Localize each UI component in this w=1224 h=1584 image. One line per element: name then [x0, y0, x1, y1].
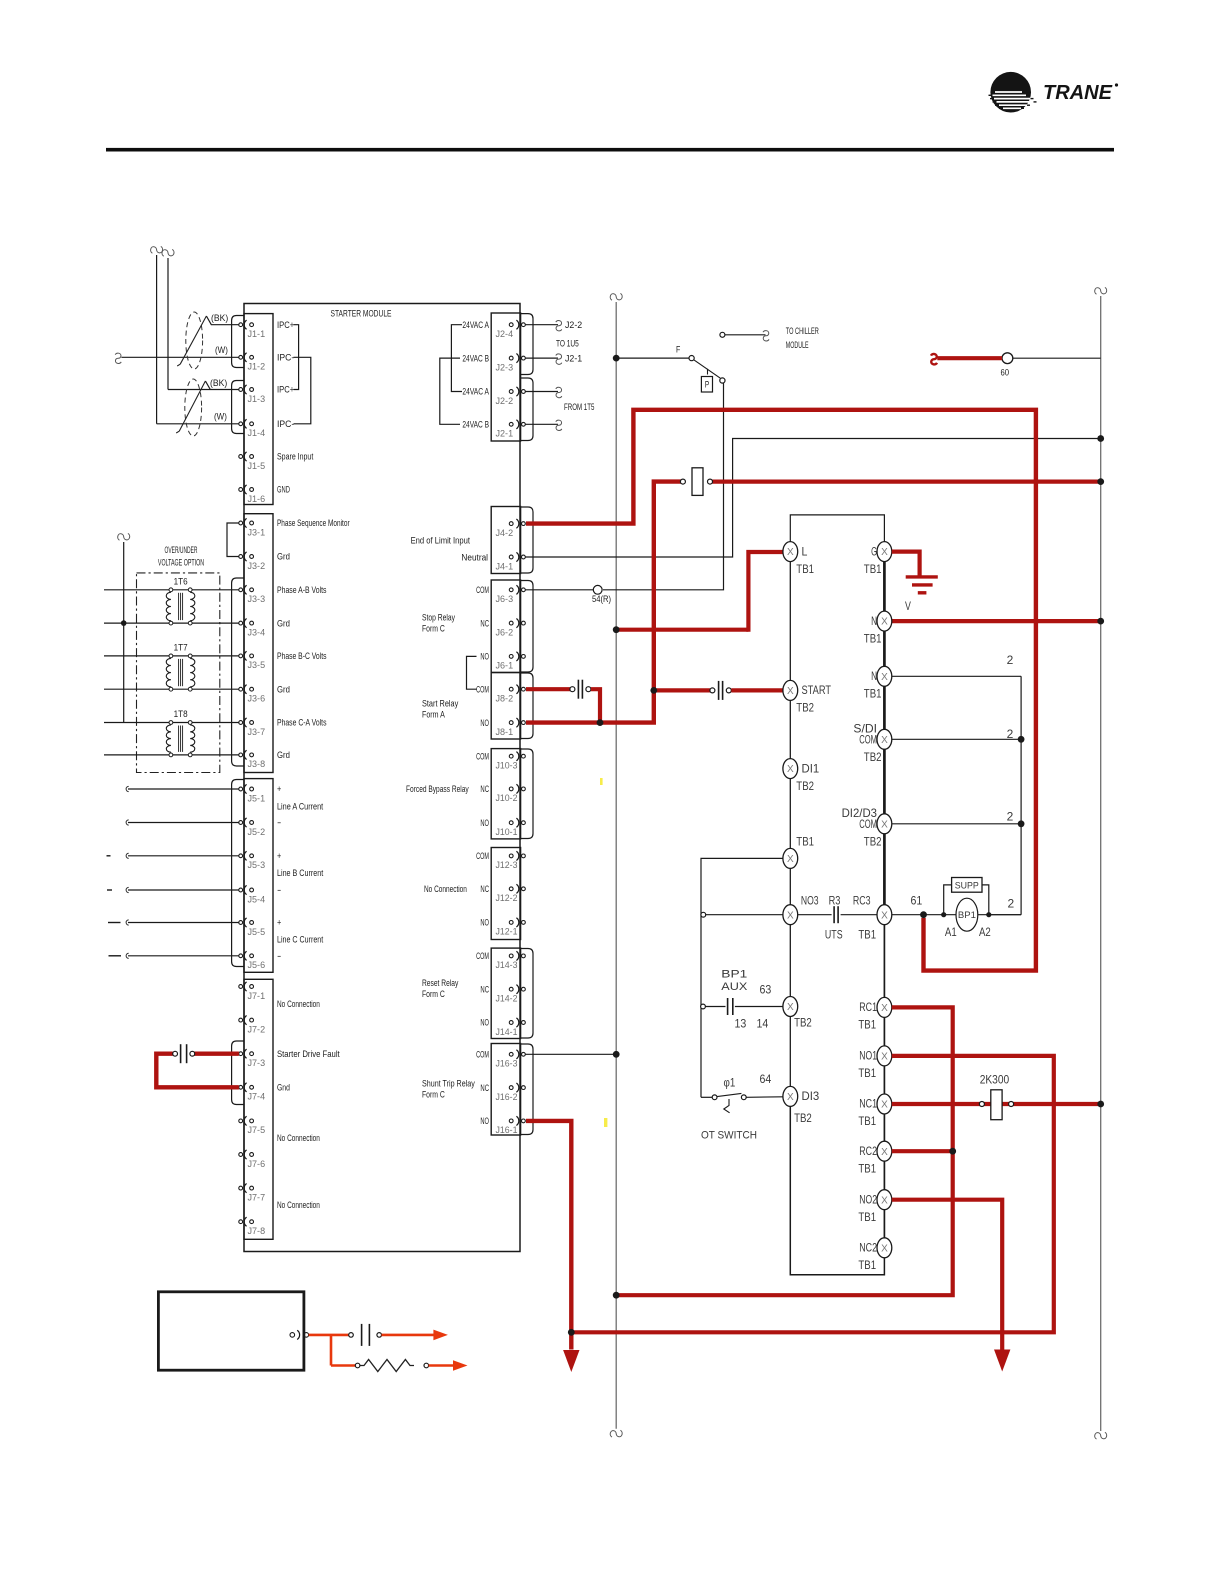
- svg-text:Phase Sequence Monitor: Phase Sequence Monitor: [277, 518, 350, 528]
- svg-text:Line A Current: Line A Current: [277, 802, 324, 812]
- svg-text:Starter Drive Fault: Starter Drive Fault: [277, 1049, 340, 1059]
- svg-text:2: 2: [1007, 727, 1014, 741]
- red wire J16-1 shunt trip down arrow: [526, 1121, 571, 1350]
- svg-text:J1-6: J1-6: [248, 494, 266, 504]
- svg-text:No Connection: No Connection: [277, 1133, 320, 1143]
- svg-text:J12-2: J12-2: [496, 893, 518, 903]
- svg-text:J1-5: J1-5: [248, 461, 266, 471]
- svg-text:J7-1: J7-1: [248, 991, 266, 1001]
- svg-text:J5-4: J5-4: [248, 894, 266, 904]
- svg-text:1T6: 1T6: [174, 576, 188, 586]
- connector pin J6-2: [509, 621, 513, 625]
- svg-text:TB1: TB1: [858, 1258, 876, 1272]
- connector J16 body: [491, 1044, 520, 1136]
- svg-text:RC1: RC1: [859, 1000, 877, 1014]
- svg-text:J7-3: J7-3: [248, 1058, 266, 1068]
- feed vertical wire: [123, 542, 125, 723]
- svg-text:(BK): (BK): [211, 313, 228, 323]
- svg-text:63: 63: [760, 982, 772, 996]
- right vertical rail: [1100, 296, 1102, 1431]
- connector pin J16-2: [509, 1086, 513, 1090]
- connector pin J10-1: [509, 821, 513, 825]
- svg-text:14: 14: [757, 1016, 769, 1030]
- twisted pair symbol 2: [185, 379, 202, 436]
- svg-text:IPC+: IPC+: [277, 320, 294, 330]
- svg-text:1T8: 1T8: [174, 709, 188, 719]
- svg-text:X: X: [787, 910, 794, 921]
- svg-text:(W): (W): [215, 345, 228, 355]
- connector pin J5-6: [239, 954, 243, 958]
- red wire J8-2 COM via capacitor: [526, 687, 570, 691]
- wire phase B to 1T7: [104, 655, 239, 657]
- connector J4 body: [491, 507, 520, 574]
- svg-text:X: X: [881, 910, 888, 921]
- connector J3 body: [244, 514, 273, 773]
- terminal 54(R): [593, 585, 602, 594]
- svg-text:TO 1U5: TO 1U5: [556, 339, 579, 349]
- svg-text:No Connection: No Connection: [277, 999, 320, 1009]
- svg-text:J7-5: J7-5: [248, 1125, 266, 1135]
- svg-text:X: X: [881, 547, 888, 558]
- svg-text:J2-3: J2-3: [496, 362, 514, 372]
- connector pin J1-3: [239, 388, 243, 392]
- terminal RC3 TB1: [877, 905, 892, 925]
- red wire J4-2 to BP1 61: [526, 410, 1036, 971]
- connector pin J7-2: [239, 1018, 243, 1022]
- terminal NC2 TB1: [877, 1238, 892, 1258]
- svg-text:UTS: UTS: [825, 927, 843, 941]
- svg-text:IPC-: IPC-: [277, 419, 294, 429]
- svg-text:NO: NO: [480, 918, 489, 928]
- bracket J1-3/J1-4: [232, 381, 244, 434]
- svg-text:J3-4: J3-4: [248, 627, 266, 637]
- svg-text:Grd: Grd: [277, 684, 290, 694]
- svg-text:NO3: NO3: [801, 893, 819, 907]
- svg-text:TB1: TB1: [858, 1210, 876, 1224]
- svg-text:START: START: [802, 683, 832, 697]
- bracket J10: [521, 749, 533, 839]
- svg-text:J12-3: J12-3: [496, 860, 518, 870]
- starter module outline: [244, 304, 520, 1252]
- svg-text:J14-2: J14-2: [496, 994, 518, 1004]
- terminal N TB1 second: [892, 675, 1021, 677]
- svg-text:Gnd: Gnd: [277, 1083, 290, 1093]
- relay coil on red wire: [680, 479, 685, 484]
- P box: [701, 377, 712, 393]
- svg-text:J3-8: J3-8: [248, 759, 266, 769]
- wire F to stop relay COM: [603, 383, 724, 590]
- terminal DI3 TB2: [783, 1086, 798, 1106]
- svg-text:Grd: Grd: [277, 552, 290, 562]
- connector pin J14-2: [509, 987, 513, 991]
- svg-text:J10-3: J10-3: [496, 761, 518, 771]
- svg-text:X: X: [881, 1100, 888, 1111]
- connector pin J12-3: [509, 854, 513, 858]
- svg-text:TB2: TB2: [796, 701, 814, 715]
- svg-text:Grd: Grd: [277, 750, 290, 760]
- CT stub: [107, 889, 112, 891]
- connector pin J5-4: [239, 888, 243, 892]
- middle terminal column lower: [883, 915, 885, 1248]
- connector pin J1-5: [239, 455, 243, 459]
- svg-text:J1-1: J1-1: [248, 329, 266, 339]
- connector pin J4-2: [509, 522, 513, 526]
- svg-text:FROM 1T5: FROM 1T5: [564, 402, 594, 412]
- bracket J16: [521, 1044, 533, 1135]
- svg-text:NO1: NO1: [859, 1049, 877, 1063]
- svg-text:J16-1: J16-1: [496, 1125, 518, 1135]
- red wire NO2 down arrow: [892, 1200, 1002, 1350]
- connector pin J7-6: [239, 1153, 243, 1157]
- svg-text:J3-1: J3-1: [248, 527, 266, 537]
- svg-text:X: X: [881, 1052, 888, 1063]
- svg-text:54(R): 54(R): [592, 594, 611, 604]
- connector pin J10-3: [509, 754, 513, 758]
- svg-text:J10-1: J10-1: [496, 827, 518, 837]
- svg-text:TB1: TB1: [796, 562, 814, 576]
- svg-text:1T7: 1T7: [174, 642, 188, 652]
- svg-text:Form C: Form C: [422, 989, 445, 999]
- svg-text:J3-6: J3-6: [248, 694, 266, 704]
- svg-text:Shunt Trip Relay: Shunt Trip Relay: [422, 1079, 475, 1089]
- terminal N TB1 to right rail red: [892, 619, 1101, 623]
- svg-text:+: +: [277, 784, 281, 794]
- svg-text:X: X: [787, 1092, 794, 1103]
- yellow flecks: [604, 1118, 607, 1127]
- wire to J1-3: [168, 389, 239, 391]
- connector pin J5-3: [239, 854, 243, 858]
- CT lead wire: [128, 889, 239, 891]
- svg-text:NC: NC: [480, 618, 489, 628]
- connector pin J2-1: [509, 422, 513, 426]
- svg-text:J4-2: J4-2: [496, 528, 514, 538]
- svg-text:MODULE: MODULE: [786, 340, 809, 350]
- connector pin J12-2: [509, 887, 513, 891]
- svg-text:J6-3: J6-3: [496, 594, 514, 604]
- svg-text:F: F: [676, 345, 681, 355]
- connector pin J1-1: [239, 323, 243, 327]
- svg-text:AUX: AUX: [721, 981, 748, 993]
- svg-text:RC3: RC3: [853, 893, 871, 907]
- svg-text:GND: GND: [277, 485, 290, 495]
- svg-text:TB2: TB2: [864, 750, 882, 764]
- svg-text:X: X: [787, 764, 794, 775]
- svg-text:X: X: [787, 1002, 794, 1013]
- svg-text:J5-3: J5-3: [248, 860, 266, 870]
- transformer 1T6: [166, 592, 171, 620]
- red wire RC2: [892, 1149, 953, 1153]
- svg-text:TB2: TB2: [796, 779, 814, 793]
- over/under voltage option dashed box: [137, 573, 220, 773]
- red wire coil to right rail: [712, 480, 1100, 484]
- svg-text:Form C: Form C: [422, 1090, 445, 1100]
- svg-text:J3-2: J3-2: [248, 561, 266, 571]
- svg-text:61: 61: [911, 893, 923, 907]
- twisted pair symbol 1: [186, 312, 203, 369]
- svg-text:DI1: DI1: [802, 761, 820, 775]
- connector J14 body: [491, 948, 520, 1038]
- CT lead wire: [128, 955, 239, 957]
- capacitor on start branch: [710, 688, 715, 693]
- svg-text:Phase B-C Volts: Phase B-C Volts: [277, 651, 327, 661]
- svg-text:NC: NC: [480, 1083, 489, 1093]
- svg-text:STARTER MODULE: STARTER MODULE: [331, 309, 392, 320]
- svg-text:X: X: [881, 1195, 888, 1206]
- svg-text:No Connection: No Connection: [277, 1200, 320, 1210]
- connector pin J3-7: [239, 721, 243, 725]
- red wire NO1 to J16-1 link: [571, 1056, 1054, 1332]
- svg-text:TB1: TB1: [858, 1161, 876, 1175]
- svg-text:TB1: TB1: [858, 1114, 876, 1128]
- stub J2-2 from 1T5: [526, 391, 559, 393]
- left terminal column: [789, 552, 791, 1097]
- ground symbol: [906, 575, 938, 578]
- terminal RC2 TB1: [877, 1141, 892, 1161]
- connector pin J1-6: [239, 488, 243, 492]
- connector J7 body: [244, 979, 273, 1239]
- svg-text:NO: NO: [480, 1116, 489, 1126]
- svg-text:A1: A1: [945, 925, 957, 939]
- svg-text:J5-2: J5-2: [248, 827, 266, 837]
- svg-text:60: 60: [1001, 368, 1010, 378]
- svg-text:Neutral: Neutral: [461, 552, 488, 562]
- IPC+ link J1-1 to J1-3: [294, 325, 299, 390]
- bracket J3-3..J3-8: [232, 578, 244, 766]
- connector pin J14-3: [509, 954, 513, 958]
- svg-text:COM: COM: [476, 684, 489, 694]
- external device box: [158, 1292, 304, 1370]
- svg-text:J6-2: J6-2: [496, 627, 514, 637]
- transformer 1T8: [166, 725, 171, 752]
- connector J1 body: [244, 314, 273, 505]
- svg-text:COM: COM: [476, 1050, 489, 1060]
- svg-text:TB1: TB1: [796, 834, 814, 848]
- wire L-G top bracket: [790, 515, 884, 552]
- bracket J6: [521, 581, 533, 673]
- wire RC3 to BP1: [892, 914, 1021, 916]
- svg-text:J7-4: J7-4: [248, 1092, 266, 1102]
- link wire to NO3: [701, 858, 783, 1097]
- terminal NO1 TB1: [877, 1046, 892, 1066]
- connector pin J16-3: [509, 1052, 513, 1056]
- bracket J2-4/J2-3: [521, 314, 533, 375]
- svg-text:J7-7: J7-7: [248, 1192, 266, 1202]
- connector pin J7-3: [239, 1052, 243, 1056]
- CT stub: [109, 955, 122, 957]
- svg-text:NO: NO: [480, 1018, 489, 1028]
- svg-text:J4-1: J4-1: [496, 561, 514, 571]
- connector pin J7-8: [239, 1220, 243, 1224]
- wire to J1-4: [157, 423, 239, 425]
- svg-text:J3-7: J3-7: [248, 727, 266, 737]
- connector pin J2-3: [509, 356, 513, 360]
- svg-text:End of Limit Input: End of Limit Input: [411, 536, 471, 546]
- svg-text:J2-2: J2-2: [565, 320, 582, 330]
- svg-text:-: -: [277, 818, 281, 828]
- left vertical rail: [615, 302, 617, 1429]
- svg-text:VOLTAGE OPTION: VOLTAGE OPTION: [158, 558, 204, 568]
- svg-text:Grd: Grd: [277, 618, 290, 628]
- svg-text:NC: NC: [480, 784, 489, 794]
- CT stub: [108, 922, 121, 924]
- connector pin J7-4: [239, 1085, 243, 1089]
- svg-text:TB1: TB1: [858, 1018, 876, 1032]
- connector pin J3-5: [239, 654, 243, 658]
- bus 2 vertical: [1020, 676, 1022, 914]
- terminal 60 wire: [1013, 357, 1101, 359]
- capacitor on starter drive fault: [173, 1051, 178, 1056]
- connector pin J6-3: [509, 588, 513, 592]
- connector pin J7-1: [239, 985, 243, 989]
- svg-text:J10-2: J10-2: [496, 793, 518, 803]
- CT lead wire: [128, 922, 239, 924]
- svg-text:TRANE: TRANE: [1043, 81, 1113, 104]
- svg-text:J1-4: J1-4: [248, 428, 266, 438]
- terminal S/DI COM TB2: [892, 738, 1021, 740]
- red wire RC1 down to rail: [616, 1007, 953, 1295]
- wire to chiller module: [720, 332, 725, 337]
- neutral wire J4-1 to right rail: [526, 439, 1101, 558]
- svg-text:RC2: RC2: [859, 1144, 877, 1158]
- relay coil 2K300: [979, 1102, 984, 1107]
- stub J2-4 to 1U5 J2-2: [526, 324, 559, 326]
- svg-text:J7-8: J7-8: [248, 1226, 266, 1236]
- terminal NC1 TB1: [877, 1094, 892, 1114]
- svg-text:X: X: [881, 735, 888, 746]
- SUPP suppressor: [944, 885, 989, 915]
- svg-text:J8-2: J8-2: [496, 694, 514, 704]
- wire phase A to 1T6: [104, 589, 239, 591]
- bracket J2-2/J2-1: [521, 378, 533, 441]
- svg-text:A2: A2: [979, 925, 991, 939]
- wire grd 1T7: [104, 688, 239, 690]
- connector pin J10-2: [509, 787, 513, 791]
- bracket J8: [521, 673, 533, 739]
- svg-text:X: X: [881, 617, 888, 628]
- connector pin J7-7: [239, 1186, 243, 1190]
- terminal NO2 TB1: [877, 1190, 892, 1210]
- Trane logo: [989, 72, 1119, 113]
- svg-text:13: 13: [735, 1016, 747, 1030]
- svg-text:-: -: [277, 885, 281, 895]
- red stub at 60: [937, 356, 1002, 360]
- svg-text:J5-6: J5-6: [248, 960, 266, 970]
- svg-text:NO: NO: [480, 818, 489, 828]
- svg-text:J2-2: J2-2: [496, 396, 514, 406]
- svg-text:TB1: TB1: [864, 562, 882, 576]
- svg-text:NO2: NO2: [859, 1192, 877, 1206]
- header rule: [106, 148, 1114, 152]
- wire grd 1T8: [104, 754, 239, 756]
- stub J2-3 to 1U5 J2-1: [526, 357, 559, 359]
- svg-text:J1-3: J1-3: [248, 394, 266, 404]
- svg-text:TB2: TB2: [864, 834, 882, 848]
- bracket J4: [521, 507, 533, 573]
- bracket J1-1/J1-2: [232, 316, 244, 368]
- terminal DI1 TB2: [783, 759, 798, 779]
- svg-text:COM: COM: [476, 951, 489, 961]
- svg-text:J8-1: J8-1: [496, 727, 514, 737]
- svg-text:(BK): (BK): [210, 378, 227, 388]
- terminal 63 X TB2: [783, 997, 798, 1017]
- svg-text:X: X: [787, 547, 794, 558]
- svg-text:G: G: [871, 544, 877, 558]
- CT lead wire: [128, 822, 239, 824]
- red ground wire: [892, 552, 920, 576]
- terminal NO3 TB1: [783, 905, 798, 925]
- svg-text:COM: COM: [476, 585, 489, 595]
- svg-text:NC1: NC1: [859, 1097, 877, 1111]
- svg-text:COM: COM: [476, 851, 489, 861]
- svg-text:J16-3: J16-3: [496, 1059, 518, 1069]
- svg-text:J16-2: J16-2: [496, 1092, 518, 1102]
- svg-text:TB2: TB2: [794, 1111, 812, 1125]
- svg-text:24VAC A: 24VAC A: [462, 320, 489, 330]
- svg-text:J3-3: J3-3: [248, 594, 266, 604]
- svg-text:IPC-: IPC-: [277, 353, 294, 363]
- connector pin J12-1: [509, 921, 513, 925]
- OT switch: [701, 1096, 712, 1098]
- svg-text:24VAC B: 24VAC B: [462, 353, 489, 363]
- connector pin J2-4: [509, 323, 513, 327]
- wire grd 1T6: [104, 622, 239, 624]
- svg-text:Forced Bypass Relay: Forced Bypass Relay: [406, 784, 469, 794]
- svg-text:TB1: TB1: [864, 687, 882, 701]
- terminal START TB2: [783, 680, 798, 700]
- starter drive fault red loop wire: [195, 1051, 239, 1055]
- CT lead wire: [128, 788, 239, 790]
- wire (BK) to J1-1: [206, 316, 239, 325]
- connector pin J8-2: [509, 687, 513, 691]
- svg-text:X: X: [787, 854, 794, 865]
- connector pin J1-2: [239, 355, 243, 359]
- connector J6 body: [491, 580, 520, 673]
- svg-text:Line B Current: Line B Current: [277, 868, 324, 878]
- svg-text:Form A: Form A: [422, 710, 445, 720]
- svg-text:J5-5: J5-5: [248, 927, 266, 937]
- svg-text:NC2: NC2: [859, 1241, 877, 1255]
- svg-text:X: X: [881, 1243, 888, 1254]
- svg-text:Line C Current: Line C Current: [277, 934, 324, 944]
- wire phase C to 1T8: [104, 722, 239, 724]
- CT stub: [107, 855, 111, 857]
- connector pin J5-1: [239, 787, 243, 791]
- junction: [121, 620, 127, 626]
- connector pin J16-1: [509, 1119, 513, 1123]
- svg-text:2: 2: [1007, 809, 1014, 823]
- link stop NO to start COM: [467, 656, 477, 689]
- svg-text:N: N: [871, 614, 877, 628]
- svg-text:Phase C-A Volts: Phase C-A Volts: [277, 718, 327, 728]
- shield wire vertical 2: [167, 258, 169, 390]
- capacitor to arrow: [349, 1333, 354, 1338]
- svg-text:COM: COM: [859, 733, 877, 747]
- wire J16-3 COM to rail: [526, 1053, 617, 1055]
- svg-text:NO: NO: [480, 652, 489, 662]
- connector pin J3-8: [239, 753, 243, 757]
- svg-text:+: +: [277, 918, 281, 928]
- svg-text:J12-1: J12-1: [496, 927, 518, 937]
- connector pin J3-2: [239, 555, 243, 559]
- svg-text:2K300: 2K300: [980, 1072, 1010, 1086]
- connector J12 body: [491, 848, 520, 940]
- svg-text:BP1: BP1: [721, 968, 747, 980]
- svg-text:Stop Relay: Stop Relay: [422, 613, 455, 623]
- svg-text:24VAC B: 24VAC B: [462, 420, 489, 430]
- svg-text:J2-1: J2-1: [496, 429, 514, 439]
- svg-text:TB1: TB1: [858, 1066, 876, 1080]
- IPC- link J1-2 to J1-4: [294, 357, 311, 424]
